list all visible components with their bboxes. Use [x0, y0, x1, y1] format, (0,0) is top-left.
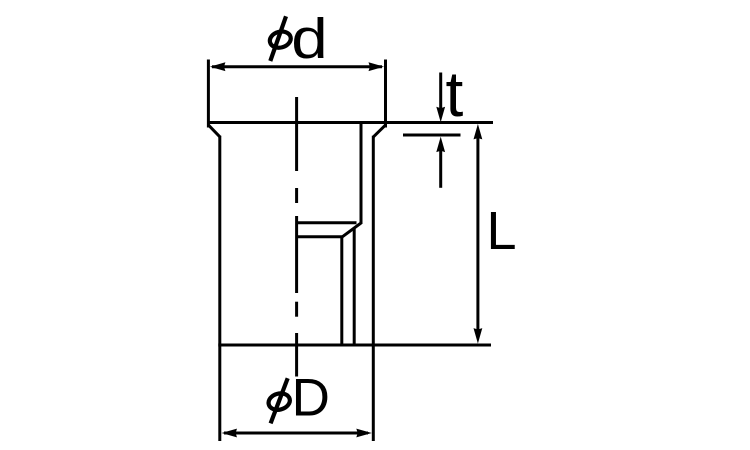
- node phi symbol of phi-D: [267, 378, 292, 423]
- wire thread outer wall: [353, 228, 356, 345]
- wire bottom line: [218, 344, 491, 347]
- wire phi-d dimension line: [212, 65, 382, 68]
- wire t upper arrow shaft: [439, 73, 442, 113]
- wire bore step lower: [297, 235, 343, 238]
- node phi-d right arrowhead: [369, 62, 385, 71]
- wire phi-D dimension line: [224, 432, 368, 435]
- wire left chamfer: [209, 125, 221, 137]
- wire thread lead-in chamfer diagonal: [342, 223, 361, 237]
- wire flange top line: [207, 121, 493, 124]
- node phi symbol of phi-d: [268, 16, 293, 61]
- wire t lower reference line: [403, 134, 461, 137]
- node L top arrowhead: [474, 124, 483, 139]
- wire bore right wall: [360, 124, 363, 224]
- wire flange left edge / extension line: [207, 60, 210, 128]
- wire thread inner wall: [340, 237, 343, 345]
- wire right chamfer: [373, 125, 385, 137]
- node phi-d left arrowhead: [210, 62, 226, 71]
- wire right extension below: [372, 345, 375, 441]
- node phi-D left arrowhead: [222, 429, 238, 438]
- node L bottom arrowhead: [474, 328, 483, 344]
- node t down arrowhead: [436, 107, 445, 123]
- svg-text:t: t: [446, 58, 464, 130]
- wire t lower arrow shaft: [439, 146, 442, 188]
- wire bore step upper: [297, 221, 357, 224]
- wire body left wall: [218, 136, 221, 345]
- wire left extension below: [218, 345, 221, 441]
- svg-text:L: L: [487, 201, 517, 261]
- wire body right wall: [372, 136, 375, 345]
- node center axis dash-dot line: [295, 97, 298, 377]
- node phi-D right arrowhead: [356, 429, 372, 438]
- node t up arrowhead: [436, 137, 445, 153]
- svg-text:D: D: [292, 368, 330, 427]
- wire L dimension line: [476, 130, 479, 337]
- svg-text:d: d: [291, 7, 327, 71]
- wire flange right edge / extension line: [384, 60, 387, 128]
